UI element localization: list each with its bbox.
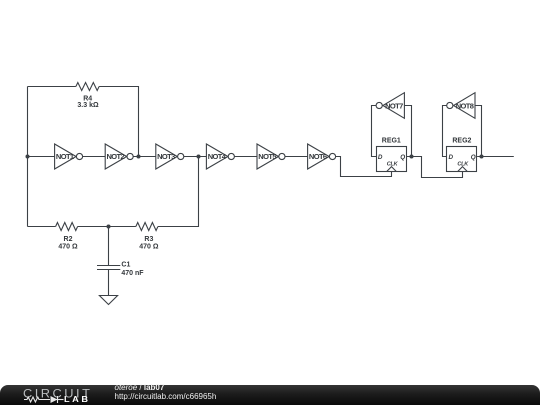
svg-text:NOT4: NOT4 <box>208 152 227 161</box>
svg-text:C1: C1 <box>121 261 130 268</box>
svg-text:D: D <box>449 154 454 161</box>
svg-text:REG1: REG1 <box>382 137 401 144</box>
svg-text:NOT6: NOT6 <box>309 152 327 161</box>
svg-text:D: D <box>378 154 383 161</box>
svg-text:NOT2: NOT2 <box>106 152 124 161</box>
svg-text:R2: R2 <box>64 236 73 243</box>
svg-text:CLK: CLK <box>387 161 399 167</box>
svg-text:NOT1: NOT1 <box>56 152 74 161</box>
svg-text:NOT3: NOT3 <box>157 152 175 161</box>
svg-text:CLK: CLK <box>457 161 469 167</box>
svg-text:REG2: REG2 <box>452 137 471 144</box>
svg-text:NOT7: NOT7 <box>385 102 403 111</box>
svg-text:470 nF: 470 nF <box>121 270 144 277</box>
svg-text:470 Ω: 470 Ω <box>139 244 159 251</box>
svg-text:NOT8: NOT8 <box>456 102 474 111</box>
svg-text:Q: Q <box>471 154 476 161</box>
svg-text:3.3 kΩ: 3.3 kΩ <box>77 102 99 109</box>
svg-text:R3: R3 <box>144 236 153 243</box>
svg-text:470 Ω: 470 Ω <box>58 244 78 251</box>
svg-text:Q: Q <box>400 154 405 161</box>
svg-text:NOT5: NOT5 <box>258 152 276 161</box>
